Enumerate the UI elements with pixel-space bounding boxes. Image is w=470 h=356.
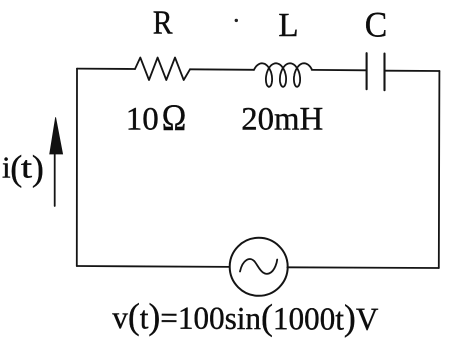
svg-text:Ω: Ω [162, 98, 187, 139]
svg-text:C: C [365, 5, 388, 45]
svg-text:t: t [21, 149, 33, 184]
wire left vertical [76, 69, 78, 266]
AC source circle [230, 238, 288, 296]
svg-text:L: L [278, 7, 298, 44]
wire between resistor and inductor [190, 68, 254, 71]
wire top-left horizontal [77, 68, 135, 70]
wire bottom-right segment [287, 266, 439, 269]
current arrow i(t) shaft [54, 152, 56, 206]
stray dot artifact [235, 19, 238, 22]
svg-text:): ) [32, 148, 44, 188]
wire bottom-left segment [77, 265, 230, 268]
resistor R zigzag [135, 58, 190, 81]
svg-text:10: 10 [126, 101, 159, 137]
wire right vertical [438, 71, 441, 268]
wire between inductor and capacitor [312, 69, 367, 71]
current arrow i(t) head [50, 117, 63, 154]
capacitor C left plate [366, 53, 368, 89]
inductor L coil [254, 63, 312, 87]
svg-text:R: R [153, 5, 173, 42]
AC source sine wave [240, 259, 277, 274]
svg-text:v(t)=100sin(1000t)V: v(t)=100sin(1000t)V [112, 295, 378, 338]
wire capacitor to top-right corner [385, 70, 440, 72]
svg-text:20mH: 20mH [241, 102, 323, 138]
capacitor C right plate [383, 54, 385, 91]
